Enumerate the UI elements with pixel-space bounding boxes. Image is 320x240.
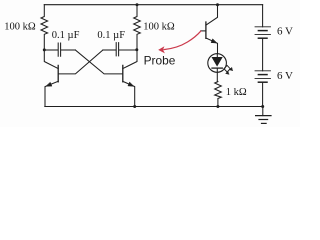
svg-text:1 kΩ: 1 kΩ [226, 87, 247, 98]
resistor R3 1k [215, 82, 222, 107]
wire battery to ground [262, 107, 264, 116]
transistor Q2 emitter arrow [128, 82, 134, 86]
LED D1 anode lead inside [216, 54, 218, 58]
LED D1 cathode bar [212, 67, 222, 69]
wire top rail [44, 4, 262, 6]
svg-text:Probe: Probe [144, 54, 176, 68]
wire cross C2 to Q1 base [59, 50, 103, 74]
svg-text:6 V: 6 V [277, 70, 293, 82]
probe red arrow [164, 31, 201, 49]
transistor Q3 base stub [201, 30, 206, 32]
transistor Q3 emitter arrow [211, 39, 217, 43]
capacitor C1 left lead [44, 49, 57, 51]
transistor Q2 collector [123, 50, 137, 69]
svg-text:100 kΩ: 100 kΩ [143, 22, 175, 33]
transistor Q1 collector [44, 50, 58, 69]
battery B2 bottom lead [262, 82, 264, 106]
junction node2 right collector [135, 48, 138, 51]
LED D1 circle [208, 54, 227, 73]
LED D1 triangle [212, 57, 222, 66]
LED D1 emission arrow 1 [224, 65, 230, 72]
svg-text:0.1 µF: 0.1 µF [52, 30, 80, 41]
transistor Q1 emitter [45, 81, 58, 106]
svg-text:0.1 µF: 0.1 µF [97, 30, 125, 41]
transistor Q3 emitter [206, 38, 218, 54]
capacitor C2 left lead [103, 49, 116, 51]
LED D1 emission arrow 2 [226, 71, 229, 74]
junction top rail Q3 [216, 3, 219, 6]
junction bottom rail Q2 emitter [133, 105, 136, 108]
junction bottom rail battery [261, 105, 264, 108]
transistor Q3 bar [205, 22, 207, 38]
svg-text:100 kΩ: 100 kΩ [4, 21, 36, 32]
transistor Q1 emitter arrow [46, 82, 52, 86]
junction top rail R2 [136, 3, 139, 6]
transistor Q1 bar [57, 65, 59, 81]
LED D1 lead to resistor [216, 68, 218, 82]
capacitor C1 right lead [61, 49, 75, 51]
resistor R2 100k (right) [134, 5, 141, 50]
battery B2 plates [255, 70, 271, 72]
resistor R1 100k (left) [41, 5, 48, 50]
ground [256, 115, 271, 117]
battery B1 top lead [262, 5, 264, 27]
transistor Q3 collector [206, 5, 218, 26]
capacitor C2 right lead [119, 49, 136, 51]
junction node1 left collector [43, 48, 46, 51]
wire bottom rail [45, 106, 263, 108]
capacitor C2 plates [116, 43, 118, 56]
capacitor C1 plates [58, 43, 60, 56]
transistor Q2 bar [122, 65, 124, 81]
wire between batteries [262, 38, 264, 71]
battery B1 plates [255, 26, 271, 28]
svg-text:6 V: 6 V [277, 26, 293, 38]
wire cross C1 to Q2 base [75, 50, 122, 74]
transistor Q2 emitter [123, 81, 135, 106]
junction bottom rail R3 [216, 105, 219, 108]
